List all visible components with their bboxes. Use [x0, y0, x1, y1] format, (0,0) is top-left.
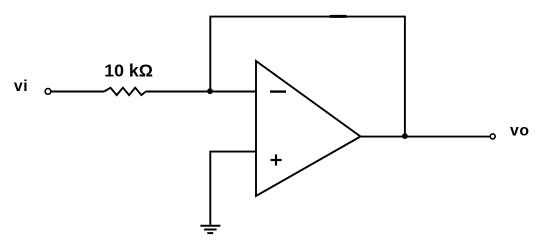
- wire feedback thick overlap segment: [330, 15, 347, 18]
- wire output: [361, 136, 490, 138]
- node B junction dot: [402, 133, 408, 139]
- wire to non-inverting input: [210, 152, 256, 225]
- op-amp minus sign: [270, 90, 286, 92]
- op-amp U1: [256, 61, 361, 196]
- wire to inverting input: [146, 91, 256, 93]
- wire feedback loop: [210, 17, 405, 137]
- terminal vi: [45, 89, 51, 95]
- terminal vo: [490, 134, 495, 139]
- svg-text:vo: vo: [510, 123, 530, 140]
- op-amp plus sign: [271, 154, 282, 165]
- ground: [200, 226, 220, 233]
- svg-text:vi: vi: [14, 78, 28, 95]
- node A junction dot: [207, 88, 213, 94]
- resistor R1 (10 kOhm): [104, 88, 146, 95]
- wire input: [51, 91, 104, 93]
- svg-text:10 kΩ: 10 kΩ: [104, 61, 153, 81]
